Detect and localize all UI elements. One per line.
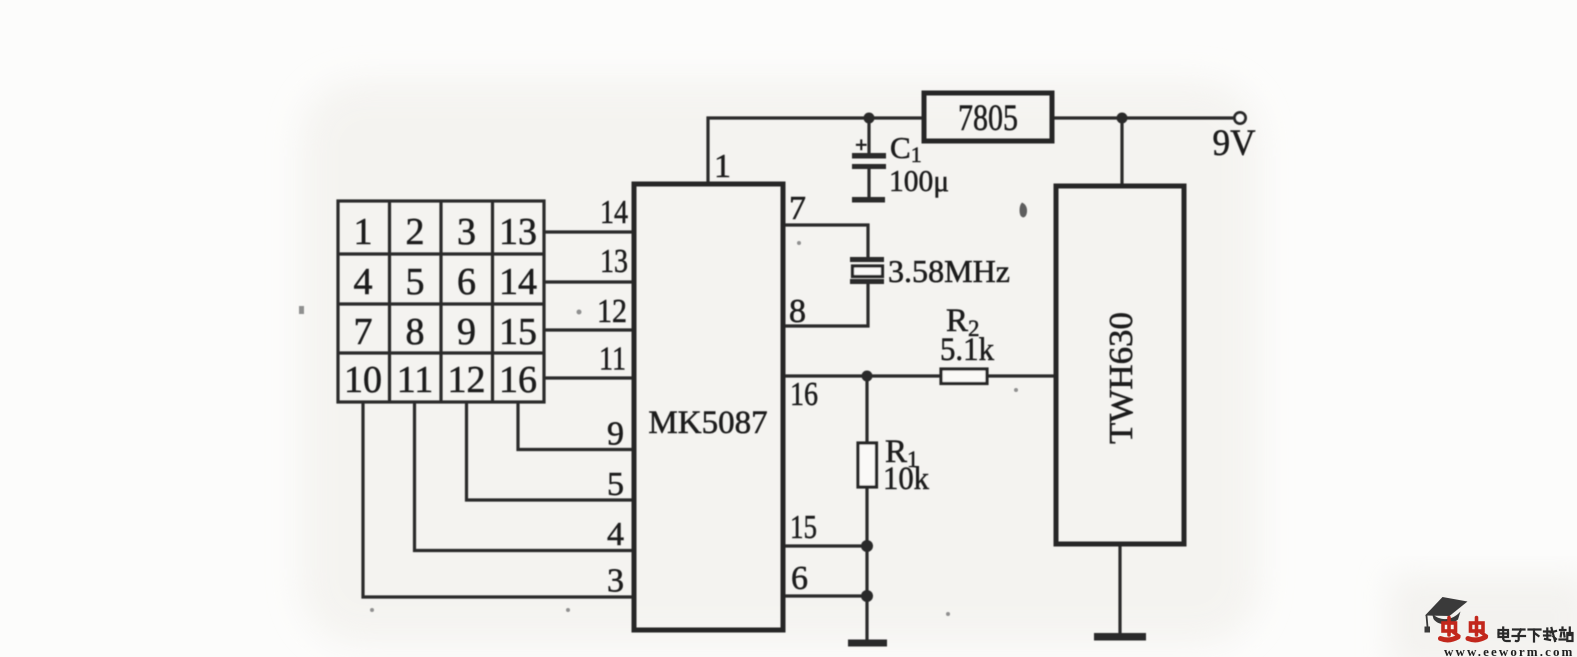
svg-text:5: 5 [607,466,624,503]
svg-text:1: 1 [714,148,731,185]
svg-text:5.1k: 5.1k [940,332,994,368]
svg-text:4: 4 [354,261,373,303]
svg-text:100μ: 100μ [889,163,949,198]
svg-text:4: 4 [607,516,624,553]
svg-text:8: 8 [789,293,806,330]
svg-text:9: 9 [457,311,476,353]
svg-text:16: 16 [499,359,537,401]
svg-text:3: 3 [607,563,624,600]
svg-text:5: 5 [406,261,425,303]
svg-text:10k: 10k [883,461,929,497]
svg-text:7: 7 [354,311,373,353]
svg-text:7805: 7805 [958,98,1018,139]
svg-text:3.58MHz: 3.58MHz [888,253,1010,289]
svg-text:14: 14 [600,194,628,231]
svg-text:12: 12 [448,359,486,401]
svg-text:MK5087: MK5087 [648,405,767,441]
svg-text:10: 10 [344,359,382,401]
svg-text:www.eeworm.com: www.eeworm.com [1444,644,1574,657]
svg-text:14: 14 [499,261,537,303]
svg-text:11: 11 [397,359,434,401]
svg-text:6: 6 [457,261,476,303]
svg-text:16: 16 [790,376,818,413]
svg-text:12: 12 [597,293,627,330]
svg-text:11: 11 [599,341,626,378]
svg-text:7: 7 [789,190,806,227]
svg-text:1: 1 [354,211,373,253]
svg-text:+: + [855,132,868,157]
svg-text:15: 15 [790,509,817,546]
svg-text:TWH630: TWH630 [1103,312,1140,444]
svg-text:13: 13 [499,211,537,253]
svg-text:3: 3 [457,211,476,253]
svg-text:9V: 9V [1213,123,1256,164]
svg-text:2: 2 [406,211,425,253]
svg-text:8: 8 [406,311,425,353]
svg-text:13: 13 [600,243,628,280]
svg-text:9: 9 [607,416,624,453]
svg-text:15: 15 [499,311,537,353]
svg-text:6: 6 [791,560,808,597]
